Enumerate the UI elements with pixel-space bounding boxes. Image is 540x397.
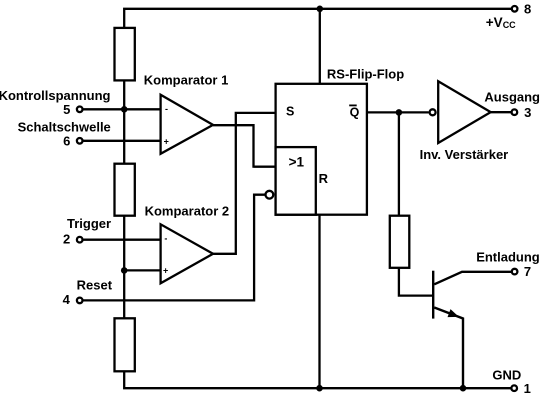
svg-text:Inv. Verstärker: Inv. Verstärker bbox=[420, 147, 509, 162]
wire comparator 2 output to flip-flop S input bbox=[213, 113, 276, 254]
op-amp inverting amplifier U2 bbox=[438, 81, 491, 143]
OR gate box inside flip-flop bbox=[276, 147, 316, 215]
overline of Qbar label bbox=[349, 104, 357, 106]
wire comparator 1 output stub into OR gate bbox=[254, 165, 276, 167]
svg-text:>1: >1 bbox=[289, 155, 305, 170]
wire pin 5 Kontrollspannung to comparator 1 minus input bbox=[83, 108, 160, 110]
transistor Q1 base bar bbox=[432, 271, 434, 319]
wire pin 2 Trigger to comparator 2 minus input bbox=[83, 239, 160, 241]
op-amp comparator 1 bbox=[161, 95, 213, 154]
svg-text:1: 1 bbox=[524, 381, 531, 396]
resistor R4 bbox=[390, 216, 410, 268]
terminal pin 3 bbox=[512, 109, 518, 115]
wire divider node to comparator 2 plus input bbox=[124, 269, 160, 271]
terminal pin 4 bbox=[77, 298, 83, 304]
svg-text:4: 4 bbox=[63, 292, 71, 307]
svg-text:-: - bbox=[165, 104, 168, 114]
node junction divider at comparator 2 plus bbox=[121, 267, 128, 274]
terminal pin 1 bbox=[511, 385, 517, 391]
node junction divider at pin 5 bbox=[121, 106, 128, 113]
svg-text:3: 3 bbox=[524, 105, 531, 120]
svg-text:Komparator 1: Komparator 1 bbox=[144, 72, 229, 87]
svg-text:Entladung: Entladung bbox=[476, 250, 540, 265]
svg-text:Komparator 2: Komparator 2 bbox=[145, 204, 230, 219]
wire pin 4 Reset to OR-gate inverted input bbox=[83, 195, 264, 301]
wire R2 bottom to R3 top bbox=[123, 216, 125, 319]
node junction GND rail at flip-flop bbox=[316, 385, 323, 392]
wire Qbar node down to resistor R4 bbox=[398, 112, 400, 215]
svg-text:8: 8 bbox=[524, 1, 531, 16]
svg-text:5: 5 bbox=[63, 102, 70, 117]
wire flip-flop Qbar output to inverter bubble bbox=[367, 111, 429, 113]
RS flip-flop box U1 bbox=[276, 84, 367, 215]
svg-text:+: + bbox=[163, 266, 168, 276]
wire R4 bottom to transistor base bbox=[399, 268, 432, 296]
terminal pin 6 bbox=[77, 138, 83, 144]
svg-text:Q: Q bbox=[350, 106, 360, 120]
wire amplifier output to pin 3 bbox=[491, 111, 512, 113]
wire R3 bottom to GND rail and GND bottom rail bbox=[124, 371, 510, 388]
terminal pin 2 bbox=[77, 237, 83, 243]
svg-text:Kontrollspannung: Kontrollspannung bbox=[0, 88, 111, 103]
wire R1 bottom to R2 top bbox=[123, 80, 125, 163]
terminal pin 8 bbox=[512, 6, 518, 12]
resistor R3 bbox=[115, 318, 135, 371]
transistor Q1 emitter to GND rail bbox=[434, 308, 463, 389]
svg-text:Schaltschwelle: Schaltschwelle bbox=[18, 119, 111, 134]
svg-text:6: 6 bbox=[63, 133, 70, 148]
transistor Q1 collector to pin 7 Entladung bbox=[434, 272, 511, 285]
wire FF top to +Vcc rail bbox=[319, 9, 321, 84]
inverter bubble on OR-gate reset input bbox=[266, 191, 274, 199]
terminal pin 5 bbox=[77, 107, 83, 113]
node junction top rail to flip-flop bbox=[317, 6, 324, 13]
svg-text:R: R bbox=[319, 171, 329, 186]
svg-text:S: S bbox=[286, 105, 294, 119]
svg-text:-: - bbox=[164, 234, 167, 244]
transistor Q1 emitter arrowhead bbox=[448, 309, 459, 317]
svg-text:Trigger: Trigger bbox=[67, 216, 111, 231]
svg-text:RS-Flip-Flop: RS-Flip-Flop bbox=[327, 66, 404, 81]
node junction GND rail at emitter bbox=[460, 385, 467, 392]
svg-text:Reset: Reset bbox=[77, 278, 113, 293]
svg-text:+VCC: +VCC bbox=[486, 15, 516, 30]
node junction Qbar wire to R4 bbox=[396, 109, 403, 116]
svg-text:2: 2 bbox=[63, 232, 70, 247]
resistor R1 bbox=[115, 28, 135, 81]
svg-text:GND: GND bbox=[492, 367, 521, 382]
op-amp comparator 2 bbox=[161, 224, 213, 283]
wire flip-flop bottom to GND rail bbox=[318, 215, 320, 389]
terminal pin 7 bbox=[512, 269, 518, 275]
resistor R2 bbox=[115, 164, 135, 216]
wire comparator 1 output to OR-gate top input bbox=[213, 125, 276, 166]
svg-text:Ausgang: Ausgang bbox=[484, 90, 540, 105]
svg-text:7: 7 bbox=[524, 264, 531, 279]
wire +Vcc top rail bbox=[124, 9, 511, 28]
inverter bubble of Inv. Verstaerker bbox=[430, 109, 436, 115]
svg-text:+: + bbox=[164, 136, 169, 146]
wire pin 6 Schaltschwelle to comparator 1 plus input bbox=[83, 140, 160, 142]
